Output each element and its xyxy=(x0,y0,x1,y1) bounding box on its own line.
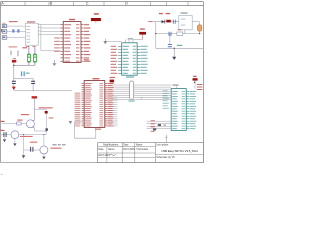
svg-text:Name: Name xyxy=(108,148,115,151)
svg-text:Name: Name xyxy=(136,144,143,147)
svg-text:USB Easy ISP Pro V3.5_SCH: USB Easy ISP Pro V3.5_SCH xyxy=(161,149,197,153)
svg-text:Date: Date xyxy=(99,148,105,151)
svg-text:Last update:: Last update: xyxy=(156,144,169,147)
svg-text:Schematic (1) V5: Schematic (1) V5 xyxy=(156,156,175,159)
svg-text:29.07.2015: 29.07.2015 xyxy=(98,155,110,157)
svg-text:C: C xyxy=(86,2,89,6)
svg-text:Modifications: Modifications xyxy=(103,143,119,147)
svg-text:Date: Date xyxy=(123,144,129,147)
svg-text:TheCoolest: TheCoolest xyxy=(136,148,148,151)
svg-text:29.07.2015: 29.07.2015 xyxy=(123,149,135,151)
svg-text:D: D xyxy=(125,2,128,6)
